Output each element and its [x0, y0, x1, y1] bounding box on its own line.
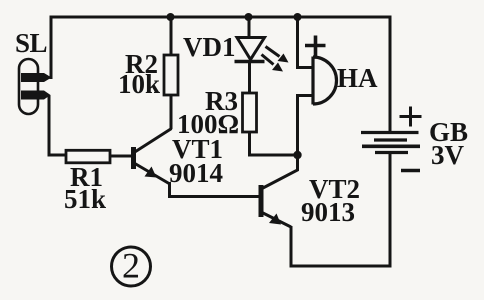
speaker HA plus sign — [305, 36, 326, 57]
transistor VT2 emitter arrow — [269, 214, 281, 225]
wire top rail — [52, 16, 390, 19]
svg-text:100Ω: 100Ω — [177, 109, 239, 139]
wire VT1 emitter to VT2 base — [170, 182, 259, 197]
svg-text:HA: HA — [337, 63, 378, 93]
wire top rail to HA — [296, 17, 299, 68]
battery GB plus sign — [400, 107, 422, 127]
svg-text:10k: 10k — [118, 69, 160, 99]
wire right rail top (to battery +) — [389, 16, 392, 132]
resistor R2 body — [164, 55, 178, 95]
node junction R3/HA/VT2 collector — [293, 151, 301, 159]
node junction top of VD1 — [245, 13, 253, 21]
resistor R1 body — [66, 150, 110, 163]
transistor VT2 emitter lead — [262, 213, 291, 228]
transistor VT1 emitter arrow — [145, 167, 157, 178]
sensor SL body — [19, 59, 38, 114]
transistor VT1 emitter lead — [134, 163, 169, 184]
transistor VT2 base bar — [259, 185, 264, 217]
speaker HA bottom stub — [296, 94, 313, 97]
speaker HA body — [313, 57, 336, 105]
diode VD1 light arrow 1 — [266, 47, 280, 57]
battery GB plate 1 long — [361, 131, 419, 134]
wire VT2 emitter to bottom rail — [291, 226, 390, 266]
battery GB minus sign — [401, 169, 420, 172]
transistor VT2 collector lead — [262, 155, 298, 189]
svg-text:9014: 9014 — [169, 158, 223, 188]
svg-text:9013: 9013 — [301, 197, 355, 227]
speaker HA top stub — [296, 66, 313, 69]
wire top rail to R2 — [170, 17, 173, 55]
wire R3 bottom to collector junction — [250, 132, 298, 155]
wire VD1 to R3 — [248, 62, 251, 93]
transistor VT1 base bar — [131, 147, 136, 169]
svg-text:2: 2 — [122, 246, 140, 286]
node junction top of HA — [294, 13, 302, 21]
wire HA to collector junction — [296, 96, 299, 156]
wire R1 to VT1 base — [110, 155, 132, 158]
node junction top of R2 — [167, 13, 175, 21]
wire right rail bottom (battery - to bottom rail) — [389, 154, 392, 268]
svg-text:VD1: VD1 — [183, 32, 236, 62]
sensor SL bottom electrode — [21, 91, 51, 100]
battery GB plate 3 long — [362, 145, 420, 149]
transistor VT1 collector lead — [134, 129, 172, 153]
svg-text:51k: 51k — [64, 184, 106, 214]
diode VD1 light arrow 2 — [262, 55, 274, 65]
figure number circle 2 — [112, 247, 151, 286]
wire left rail upper (top rail to SL top electrode) — [50, 16, 53, 80]
diode VD1 triangle — [237, 38, 265, 60]
svg-text:SL: SL — [15, 28, 47, 58]
sensor SL top electrode — [21, 73, 52, 82]
wire top rail to VD1 — [248, 17, 251, 38]
wire R2 bottom to VT1 collector — [170, 95, 173, 129]
wire left rail lower (SL bottom electrode down to R1) — [49, 95, 66, 155]
diode VD1 cathode bar — [235, 60, 265, 63]
resistor R3 body — [243, 93, 257, 132]
battery GB plate 4 short — [375, 151, 408, 154]
svg-text:3V: 3V — [431, 140, 465, 170]
battery GB plate 2 short — [374, 138, 407, 141]
